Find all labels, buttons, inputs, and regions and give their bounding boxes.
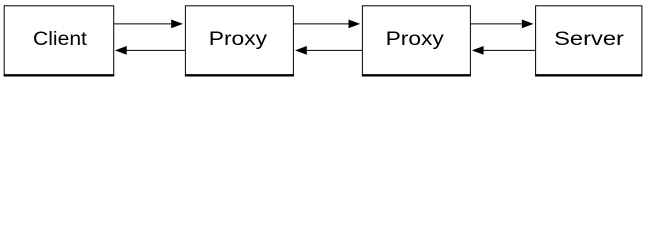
arrow Proxy2 to Proxy1 (bottom, left-pointing): [295, 46, 362, 55]
arrow Server to Proxy2 (bottom, left-pointing): [472, 46, 536, 55]
box Proxy 2: [362, 6, 471, 76]
box Proxy 1: [185, 6, 294, 76]
arrow Proxy1 to Client (bottom, left-pointing): [115, 46, 185, 55]
box Client: [4, 6, 115, 76]
svg-text:Client: Client: [33, 28, 88, 50]
svg-text:Server: Server: [554, 28, 624, 50]
box Server: [535, 6, 642, 76]
arrow Client to Proxy1 (top, right-pointing): [114, 20, 183, 29]
arrow Proxy1 to Proxy2 (top, right-pointing): [294, 20, 361, 29]
arrow Proxy2 to Server (top, right-pointing): [471, 20, 534, 29]
svg-text:Proxy: Proxy: [209, 28, 267, 50]
svg-text:Proxy: Proxy: [386, 28, 444, 50]
